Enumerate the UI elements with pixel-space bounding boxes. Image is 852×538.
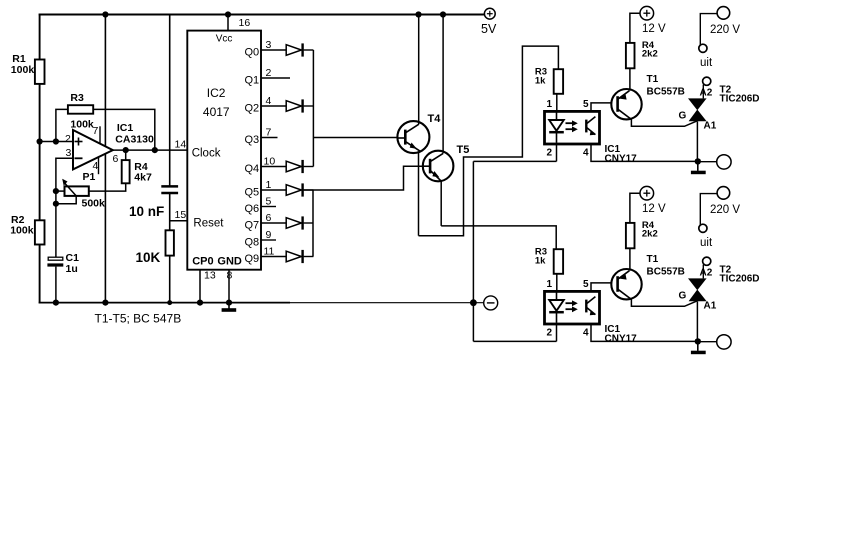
svg-text:1: 1 xyxy=(547,279,553,290)
node P1 left xyxy=(53,188,59,194)
resistor R2 xyxy=(35,220,45,244)
svg-text:3: 3 xyxy=(66,147,72,159)
wire Q9 stub xyxy=(261,256,286,258)
transistor T4 (BC547B) xyxy=(397,121,429,153)
diode D1 on Q0 xyxy=(286,43,302,56)
wire diode bus B (Q5,Q7,Q9) xyxy=(312,190,314,257)
resistor R3 1k (lower) xyxy=(554,249,563,274)
wire Q7 stub xyxy=(261,222,286,224)
triac T2 TIC206D (upper) xyxy=(688,98,707,121)
label IC1 CNY17 (upper) xyxy=(605,144,638,165)
terminal 12V (lower) xyxy=(640,186,654,200)
svg-text:4: 4 xyxy=(583,328,589,339)
wire opto pin2 down (upper) xyxy=(556,144,558,161)
svg-text:4017: 4017 xyxy=(203,105,230,119)
svg-text:12 V: 12 V xyxy=(642,23,666,35)
svg-text:1: 1 xyxy=(547,99,553,110)
wire junction to output terminal (lower) xyxy=(698,341,717,343)
svg-text:100k: 100k xyxy=(11,64,35,76)
ground symbol (IC2 pin 8) xyxy=(222,303,237,312)
label T2 TIC206D (upper) xyxy=(720,85,760,105)
wire diode bus A (Q0,Q2,Q4) xyxy=(312,50,314,167)
triac T2 TIC206D (lower) xyxy=(688,278,707,301)
wire opto pin5 to T1 base (lower) xyxy=(591,283,617,292)
wire T1 collector to triac gate (upper) xyxy=(631,119,697,126)
wire left rail (R1 to R2) xyxy=(39,84,41,220)
wire R4 to 12V terminal (lower) xyxy=(630,193,640,223)
svg-text:2k2: 2k2 xyxy=(642,229,658,240)
optocoupler IC1 CNY17 (upper) xyxy=(545,111,600,144)
svg-text:BC557B: BC557B xyxy=(647,267,685,278)
svg-text:2k2: 2k2 xyxy=(642,49,658,60)
transistor T1 BC557B (upper) xyxy=(611,89,641,119)
opto phototransistor (lower) xyxy=(586,297,595,316)
svg-text:P1: P1 xyxy=(83,171,96,183)
resistor R3 1k (upper) xyxy=(554,69,563,94)
wire opto pin2 to minus column (upper) xyxy=(473,160,556,162)
svg-text:Q2: Q2 xyxy=(245,103,260,115)
svg-text:T4: T4 xyxy=(428,113,442,125)
wire T5 emitter down xyxy=(440,181,442,226)
resistor R3 xyxy=(68,105,93,114)
wire IC2 pin 8 GND xyxy=(228,270,230,303)
resistor R4 xyxy=(122,160,130,183)
wire Q6 stub xyxy=(261,206,276,208)
svg-text:5: 5 xyxy=(583,99,589,110)
node pin2 / R3 branch xyxy=(53,138,59,144)
svg-text:13: 13 xyxy=(204,270,216,282)
svg-text:7: 7 xyxy=(93,125,99,137)
svg-text:4k7: 4k7 xyxy=(134,172,152,184)
terminal 12V (upper) xyxy=(640,6,654,20)
ground symbol (upper) xyxy=(691,161,706,174)
wire op-amp pin3 (-) input to P1 xyxy=(56,158,73,257)
label C1 1u xyxy=(66,252,80,275)
node top rail / T5 collector xyxy=(440,11,446,17)
svg-text:14: 14 xyxy=(175,139,187,151)
label T2 TIC206D (lower) xyxy=(720,265,760,285)
label R3 100k xyxy=(70,92,94,131)
wire 220V to uit (lower) xyxy=(700,194,717,226)
wire opto pin1 (lower) xyxy=(556,274,558,292)
svg-text:TIC206D: TIC206D xyxy=(720,94,760,105)
wire 220V to uit (upper) xyxy=(700,14,717,46)
svg-text:100k: 100k xyxy=(10,225,34,237)
svg-text:G: G xyxy=(679,291,687,302)
wire C1 to bottom rail xyxy=(55,267,57,303)
wire opto pin1 (upper) xyxy=(556,94,558,112)
label R1 100k xyxy=(11,53,35,76)
svg-text:Clock: Clock xyxy=(192,148,221,160)
svg-text:IC1: IC1 xyxy=(117,122,133,134)
svg-text:1u: 1u xyxy=(66,263,78,275)
node pin2 / left rail xyxy=(37,138,43,144)
svg-text:6: 6 xyxy=(113,153,119,165)
label R3 1k (upper) xyxy=(535,67,547,87)
wire 10nF branch top xyxy=(169,15,171,187)
svg-text:5V: 5V xyxy=(481,22,497,36)
diode D2 on Q2 xyxy=(286,99,302,112)
transistor T5 (BC547B) xyxy=(423,151,454,182)
wire T5 collector to +5V xyxy=(442,15,444,154)
svg-text:100k: 100k xyxy=(70,119,94,131)
wire op-amp output to IC2 clock xyxy=(113,149,188,151)
label R3 1k (lower) xyxy=(535,247,547,267)
terminal +5V xyxy=(484,8,495,19)
terminal 220V (upper) xyxy=(717,7,730,20)
node bottom rail / pin8 ground xyxy=(226,300,232,306)
wire Q7 diode to bus xyxy=(304,222,314,224)
wire opto pin2 to minus column (lower) xyxy=(473,340,556,342)
wire T1 emitter to R4 (upper) xyxy=(629,68,631,91)
wire T4 collector to +5V xyxy=(418,15,420,125)
op-amp pin 4 stub xyxy=(98,157,100,174)
svg-text:Q5: Q5 xyxy=(245,187,260,199)
wire P1 wiper return xyxy=(56,196,76,204)
capacitor C1 1u xyxy=(47,257,63,266)
svg-text:220 V: 220 V xyxy=(710,24,740,36)
terminal output (lower) xyxy=(717,335,731,349)
wire left rail (R2 to bottom) xyxy=(39,245,41,304)
svg-text:5: 5 xyxy=(266,196,272,208)
wire op-amp pin2 (+) input xyxy=(40,141,73,143)
node top rail / IC2 pin16 xyxy=(225,11,231,17)
transistor T1 BC557B (lower) xyxy=(611,269,641,299)
potentiometer P1 xyxy=(62,179,89,196)
wire opto pin4 (upper) xyxy=(591,144,698,161)
svg-text:Q7: Q7 xyxy=(245,220,260,232)
terminal A2 (upper) xyxy=(703,77,711,85)
diode D6 on Q9 xyxy=(286,250,302,263)
wire reset tap xyxy=(170,220,188,222)
wire T4 emitter down xyxy=(418,151,420,235)
svg-text:R3: R3 xyxy=(70,92,84,104)
wire P1 left leg xyxy=(56,190,65,192)
terminal uit (upper) xyxy=(699,44,707,52)
wire R4 to 12V terminal (upper) xyxy=(630,13,640,43)
wire Q4 stub xyxy=(261,166,286,168)
svg-text:1k: 1k xyxy=(535,256,546,267)
svg-text:9: 9 xyxy=(266,229,272,241)
wire left rail (top to R1) xyxy=(39,14,41,60)
svg-text:Q9: Q9 xyxy=(245,253,260,265)
svg-text:500k: 500k xyxy=(82,198,106,210)
opto phototransistor (upper) xyxy=(586,117,595,136)
wire Q5 row to T5 base xyxy=(304,166,423,190)
svg-text:12 V: 12 V xyxy=(642,203,666,215)
svg-text:Vcc: Vcc xyxy=(216,34,233,45)
wire opto pin5 to T1 base (upper) xyxy=(591,103,617,112)
svg-text:10 nF: 10 nF xyxy=(129,204,164,219)
wire supply column x=105 xyxy=(104,15,106,303)
svg-text:Q4: Q4 xyxy=(245,163,260,175)
opto light arrows (lower) xyxy=(566,300,578,312)
svg-text:TIC206D: TIC206D xyxy=(720,274,760,285)
optocoupler IC1 CNY17 (lower) xyxy=(545,291,600,324)
wire R3 right leg to output xyxy=(93,109,155,150)
wire opto pin2 down (lower) xyxy=(556,324,558,341)
svg-text:A1: A1 xyxy=(704,121,717,132)
node bottom rail / pin13 xyxy=(197,300,203,306)
svg-text:15: 15 xyxy=(175,209,187,221)
wire triac A2 (upper) xyxy=(702,85,704,99)
wire Q8 stub xyxy=(261,239,276,241)
wire Q0 stub xyxy=(261,49,286,51)
resistor R5 10K xyxy=(166,230,174,255)
node P1 wiper return xyxy=(53,201,59,207)
op-amp U1 IC1 CA3130 xyxy=(73,130,113,169)
wire IC2 pin 16 Vcc xyxy=(227,15,229,31)
terminal minus xyxy=(484,296,498,310)
svg-text:4: 4 xyxy=(583,148,589,159)
node output / R4 xyxy=(123,147,129,153)
svg-text:4: 4 xyxy=(266,95,272,107)
svg-text:8: 8 xyxy=(227,270,233,282)
node A1 junction (upper) xyxy=(695,158,701,164)
op-amp plus input mark xyxy=(75,138,83,146)
svg-text:Q6: Q6 xyxy=(245,203,260,215)
label R2 100k xyxy=(10,214,34,237)
svg-text:3: 3 xyxy=(266,39,272,51)
svg-text:A2: A2 xyxy=(700,88,713,99)
svg-text:2: 2 xyxy=(547,148,553,159)
label IC1 CNY17 (lower) xyxy=(605,324,638,345)
wire Q2 diode to bus xyxy=(304,105,314,107)
wire Q4 diode to bus xyxy=(304,166,314,168)
svg-text:GND: GND xyxy=(217,256,242,268)
node bottom rail / supply column xyxy=(102,300,108,306)
wire Q9 diode to bus xyxy=(304,256,314,258)
wire IC2 pin 13 CP0 xyxy=(199,270,201,303)
wire Q3 stub xyxy=(261,137,278,139)
wire R4 top leg xyxy=(125,150,127,160)
svg-text:10: 10 xyxy=(264,156,276,168)
svg-text:CNY17: CNY17 xyxy=(605,334,638,345)
svg-text:BC557B: BC557B xyxy=(647,87,685,98)
svg-text:T1-T5; BC 547B: T1-T5; BC 547B xyxy=(95,312,182,326)
IC U2 4017 body xyxy=(187,31,261,270)
diode D5 on Q7 xyxy=(286,216,302,229)
svg-text:5: 5 xyxy=(583,279,589,290)
svg-text:Q1: Q1 xyxy=(245,75,260,87)
wire T1 emitter to R4 (lower) xyxy=(629,248,631,271)
svg-text:uit: uit xyxy=(700,237,713,249)
wire R3 left leg xyxy=(56,109,68,141)
svg-text:uit: uit xyxy=(700,57,713,69)
node output / R3 feedback xyxy=(152,147,158,153)
svg-text:CA3130: CA3130 xyxy=(115,134,154,146)
terminal A2 (lower) xyxy=(703,257,711,265)
wire triac A2 (lower) xyxy=(702,265,704,279)
svg-text:A2: A2 xyxy=(700,268,713,279)
resistor R4 2k2 (lower) xyxy=(626,223,635,248)
svg-text:16: 16 xyxy=(239,17,251,29)
svg-text:Q8: Q8 xyxy=(245,237,260,249)
wire T5 emitter to lower R3 xyxy=(441,226,556,250)
svg-text:T1: T1 xyxy=(647,74,659,85)
terminal uit (lower) xyxy=(699,224,707,232)
diode D4 on Q5 xyxy=(286,183,302,196)
wire triac A1 to ground rail (lower) xyxy=(696,301,698,341)
svg-text:2: 2 xyxy=(65,133,71,145)
wire T1 collector to triac gate (lower) xyxy=(631,299,697,306)
label R4 2k2 (lower) xyxy=(642,220,658,240)
wire Q0 diode to bus xyxy=(304,49,314,51)
svg-text:Q3: Q3 xyxy=(245,134,260,146)
wire junction to output terminal (upper) xyxy=(698,161,717,163)
svg-text:T1: T1 xyxy=(647,254,659,265)
node minus rail junction xyxy=(470,299,477,306)
wire P1 right leg to R4 xyxy=(89,183,126,191)
node top rail / T4 collector xyxy=(415,11,421,17)
wire Q2 stub xyxy=(261,105,286,107)
node A1 junction (lower) xyxy=(695,338,701,344)
resistor R1 xyxy=(35,60,45,84)
ground symbol (lower) xyxy=(691,341,706,354)
svg-text:2: 2 xyxy=(266,67,272,79)
wire bottom ground rail xyxy=(39,302,484,304)
wire opto pin4 (lower) xyxy=(591,324,698,341)
opto LED (upper) xyxy=(549,113,564,143)
label R4 4k7 xyxy=(134,161,152,184)
svg-text:220 V: 220 V xyxy=(710,204,740,216)
wire 10nF to 10K xyxy=(169,193,171,230)
svg-text:Reset: Reset xyxy=(193,218,224,230)
op-amp pin 7 stub xyxy=(99,126,101,144)
diode D3 on Q4 xyxy=(286,160,302,173)
label IC1 CA3130 xyxy=(115,122,154,146)
svg-text:11: 11 xyxy=(264,246,275,258)
svg-text:7: 7 xyxy=(266,127,272,139)
wire 10K to bottom rail xyxy=(169,256,171,303)
resistor R4 2k2 (upper) xyxy=(626,43,635,68)
wire triac A1 to ground rail (upper) xyxy=(696,121,698,161)
svg-text:T5: T5 xyxy=(457,144,470,156)
svg-text:2: 2 xyxy=(547,328,553,339)
svg-text:A1: A1 xyxy=(704,301,717,312)
svg-text:10K: 10K xyxy=(136,250,161,265)
opto LED (lower) xyxy=(549,293,564,323)
node top rail / supply column xyxy=(102,11,108,17)
node bottom rail / 10K xyxy=(167,300,172,305)
wire T4 emitter to upper R3 xyxy=(419,46,559,236)
capacitor C2 10nF xyxy=(161,186,178,193)
terminal output (upper) xyxy=(717,155,731,169)
label R4 2k2 (upper) xyxy=(642,40,658,60)
terminal 220V (lower) xyxy=(717,187,730,200)
wire bus A to T4 base xyxy=(313,137,397,139)
wire Q5 stub xyxy=(261,189,286,191)
svg-text:1k: 1k xyxy=(535,76,546,87)
svg-text:Q0: Q0 xyxy=(245,47,260,59)
opto light arrows (upper) xyxy=(566,120,578,132)
svg-text:G: G xyxy=(679,111,687,122)
wire opto cathode column to minus rail xyxy=(472,161,474,341)
node bottom rail / C1 xyxy=(53,300,59,306)
wire Q5 diode to bus xyxy=(304,189,314,191)
svg-text:6: 6 xyxy=(266,212,272,224)
op-amp minus input mark xyxy=(75,157,83,159)
svg-text:1: 1 xyxy=(266,179,272,191)
svg-text:IC2: IC2 xyxy=(207,86,226,100)
wire +5V top rail xyxy=(39,14,485,16)
svg-text:CNY17: CNY17 xyxy=(605,154,638,165)
wire Q1 stub xyxy=(261,77,290,79)
svg-text:CP0: CP0 xyxy=(192,256,213,268)
